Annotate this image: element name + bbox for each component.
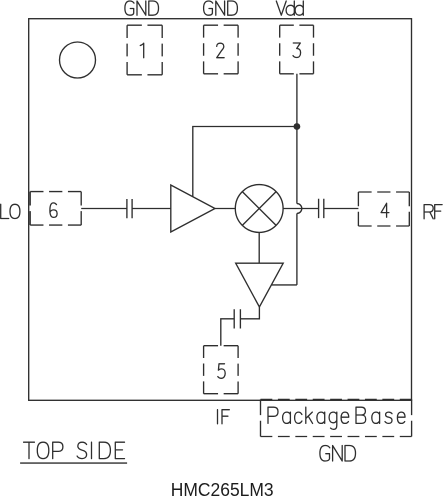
label IF <box>218 410 230 424</box>
wire mixer to C2 <box>283 208 318 210</box>
label Vdd pad3 <box>276 1 303 15</box>
pin number 5 <box>218 364 225 379</box>
label TOP <box>24 442 63 458</box>
amplifier A1 (LO buffer) <box>171 185 215 232</box>
label Base <box>356 407 405 423</box>
label RF <box>424 205 442 219</box>
capacitor C2 (RF dc block) <box>319 199 324 218</box>
svg-text:HMC265LM3: HMC265LM3 <box>171 479 274 500</box>
package outline <box>29 19 412 401</box>
pad 6 (LO) <box>30 192 81 226</box>
wire C3 to pad5 <box>221 319 234 346</box>
wire pad6 to C1 <box>81 208 126 210</box>
pin number 6 <box>50 203 57 218</box>
pin number 3 <box>293 43 301 58</box>
wire crossover hop <box>297 204 302 214</box>
pad 1 (GND) <box>127 25 162 75</box>
capacitor C3 (IF dc block) <box>234 309 240 328</box>
label SIDE <box>77 442 124 458</box>
label GND pad1 <box>125 1 159 15</box>
package base paddle <box>261 399 412 436</box>
wire mixer to A2 <box>258 232 260 263</box>
amplifier A2 (IF) <box>236 263 284 307</box>
pin-1 marker circle <box>60 42 96 78</box>
pin number 4 <box>381 203 389 217</box>
pad 4 (RF) <box>358 192 409 226</box>
capacitor C1 (LO dc block) <box>127 199 132 218</box>
pad 2 (GND) <box>204 25 239 74</box>
wire A2 tip down-left <box>241 307 260 319</box>
wire junction to A1 branch <box>193 127 297 197</box>
label LO <box>1 204 20 218</box>
wire C2 to pad4 <box>324 208 359 210</box>
label GND package base <box>320 446 356 462</box>
wire C1 to amplifier <box>132 208 171 210</box>
wire Vdd below hop <box>296 213 298 285</box>
wire A1 to mixer <box>215 208 235 210</box>
pad 3 (Vdd) <box>280 25 314 74</box>
mixer U1 X <box>242 192 276 226</box>
pin number 1 <box>140 43 143 58</box>
wire Vdd from pad3 down <box>296 74 298 204</box>
label GND pad2 <box>204 1 238 15</box>
label Package <box>268 407 349 429</box>
mixer U1 circle <box>235 185 283 233</box>
junction node dot <box>294 123 301 130</box>
TOP SIDE underline <box>20 462 127 464</box>
wire Vdd into A2 <box>272 284 297 286</box>
pad 5 (IF) <box>204 346 239 394</box>
pin number 2 <box>217 43 224 58</box>
